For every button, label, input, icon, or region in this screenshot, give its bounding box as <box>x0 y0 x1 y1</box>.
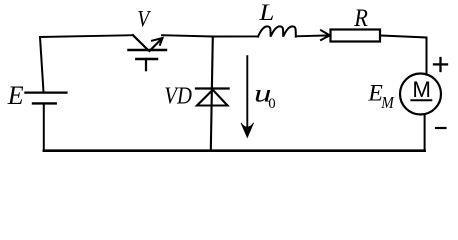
svg-text:E: E <box>7 81 24 110</box>
svg-text:M: M <box>412 77 431 102</box>
svg-text:0: 0 <box>268 96 275 112</box>
svg-text:VD: VD <box>164 83 192 110</box>
svg-text:M: M <box>380 93 394 112</box>
svg-text:L: L <box>258 0 274 26</box>
svg-text:R: R <box>353 5 368 32</box>
